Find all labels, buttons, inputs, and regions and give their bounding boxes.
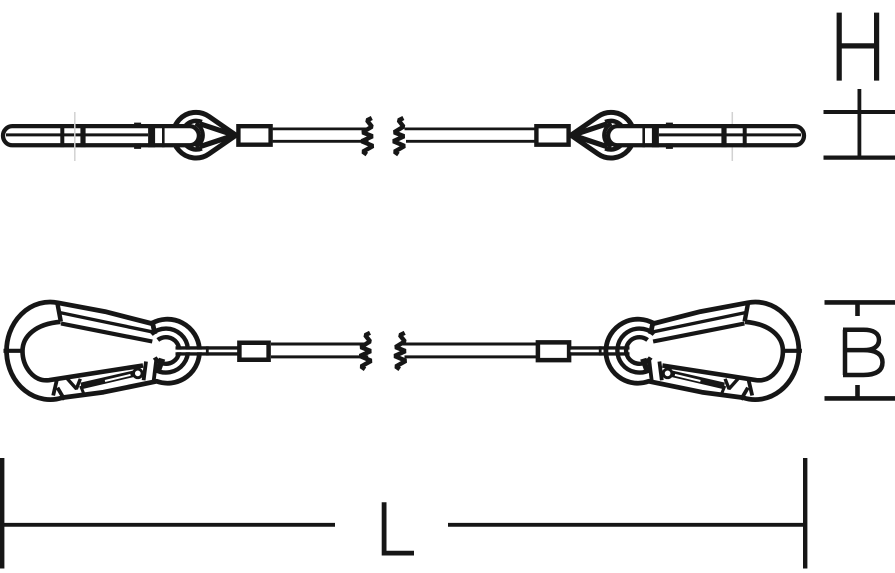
eye top junction wedge — [150, 320, 158, 335]
L dimension right extension line — [803, 458, 807, 569]
H dimension vertical line — [858, 89, 862, 158]
carabiner bottom division a — [53, 378, 57, 396]
thimble eye left: inner rope loop — [182, 121, 202, 150]
thin rope joint tick left — [206, 346, 209, 355]
carabiner top band inner edge — [61, 324, 152, 342]
ferrule top-left — [238, 126, 270, 145]
right gate division near eye 1 — [659, 362, 661, 381]
ferrule top-right — [536, 126, 568, 145]
letter H — [839, 13, 876, 81]
carabiner eye middle arc — [151, 329, 188, 373]
carabiner bottom division b — [58, 388, 65, 400]
rod divider bar 2 right — [721, 124, 726, 147]
right carabiner top band inner edge — [653, 324, 744, 342]
ferrule mid-left — [239, 343, 268, 360]
right gate bar white core — [675, 375, 701, 381]
gate division near eye 1 — [144, 362, 146, 381]
rod thin bar left — [162, 124, 165, 147]
carabiner top band middle line — [60, 313, 153, 332]
left carabiner — [4, 302, 200, 400]
rod thick bar left — [148, 124, 155, 147]
break symbol mid-left — [360, 333, 371, 369]
B dimension bottom stub — [855, 385, 860, 398]
wire rope mid-left segment — [271, 344, 368, 357]
gate latch V — [67, 379, 80, 389]
L dimension line right part — [448, 523, 805, 527]
B dimension bottom tick — [825, 396, 895, 401]
break symbol top-right — [393, 118, 404, 154]
right carabiner left division — [783, 349, 802, 353]
rod divider bar 1 right — [743, 124, 747, 147]
carabiner inner cavity outline — [23, 322, 144, 381]
rod divider bar 2 left — [80, 124, 85, 147]
gate latch stub — [81, 386, 85, 395]
carabiner outer outline — [7, 302, 200, 400]
B dimension top stub — [855, 303, 860, 316]
L dimension line left part — [2, 523, 335, 527]
right carabiner eye middle arc — [617, 329, 654, 373]
thin rope white core right — [571, 350, 631, 353]
gate rivet — [134, 369, 143, 378]
L dimension left extension line — [0, 458, 4, 569]
thin rope joint tick right — [599, 346, 602, 355]
rod clamp nubs right — [666, 123, 673, 149]
right carabiner eye inner arc — [626, 337, 651, 364]
right carabiner bottom division b — [741, 388, 748, 400]
right carabiner inner cavity outline — [662, 322, 783, 381]
thimble crescent left — [196, 123, 203, 147]
rod divider bar 1 left — [60, 124, 64, 147]
gate bar — [81, 371, 135, 390]
right mirrored end: thimble eye + rod + ferrule — [536, 112, 804, 158]
thin rope white core left — [175, 350, 238, 353]
thimble converge extra lines left — [200, 124, 232, 147]
letter L — [384, 502, 414, 553]
thimble eye left: outer rope loop — [173, 112, 236, 158]
thin rope at left eye — [176, 348, 239, 354]
wire rope top-left segment — [273, 129, 369, 141]
faint reference line left — [74, 112, 76, 161]
right gate rivet — [663, 369, 672, 378]
right gate latch V — [725, 379, 738, 389]
right carabiner top division — [745, 303, 749, 322]
rod mid line left — [6, 133, 148, 136]
ferrule mid-right — [538, 342, 569, 360]
right carabiner (mirrored) — [606, 302, 802, 400]
right eye top junction wedge — [648, 320, 656, 335]
H dimension bottom tick — [824, 156, 895, 160]
break symbol top-left — [362, 118, 373, 154]
right carabiner outer outline — [606, 302, 799, 400]
letter B — [843, 330, 883, 375]
rod thick bar right — [652, 124, 659, 147]
right gate division near eye 2 — [649, 361, 652, 382]
thimble eye right: outer rope loop — [571, 112, 634, 158]
H dimension top tick — [824, 110, 895, 114]
suspension rod (capsule) left — [3, 126, 199, 145]
rod clamp nubs left — [134, 123, 141, 149]
rod thin bar right — [642, 124, 645, 147]
gate division near eye 2 — [154, 361, 157, 382]
thin rope at right eye — [571, 348, 630, 354]
right eye bottom junction wedge — [640, 358, 649, 370]
right gate latch stub — [721, 386, 725, 395]
rod mid line right — [659, 133, 801, 136]
right carabiner bottom division a — [748, 378, 752, 396]
break symbol mid-right — [395, 333, 406, 369]
right gate bar — [671, 371, 725, 390]
right carabiner top band middle line — [653, 313, 746, 332]
thimble eye right: inner rope loop — [605, 121, 625, 150]
B dimension top tick — [825, 300, 895, 305]
thimble crescent right — [604, 123, 611, 147]
thimble converge extra lines right — [575, 124, 607, 147]
carabiner top division — [57, 303, 61, 322]
wire rope top-right segment — [405, 129, 537, 141]
suspension rod (capsule) right — [608, 126, 804, 145]
gate bar white core — [105, 375, 131, 381]
carabiner eye inner arc — [155, 337, 180, 364]
eye bottom junction wedge — [157, 358, 166, 370]
carabiner left division — [4, 349, 23, 353]
faint reference line right — [731, 112, 733, 161]
wire rope mid-right segment — [403, 344, 537, 357]
